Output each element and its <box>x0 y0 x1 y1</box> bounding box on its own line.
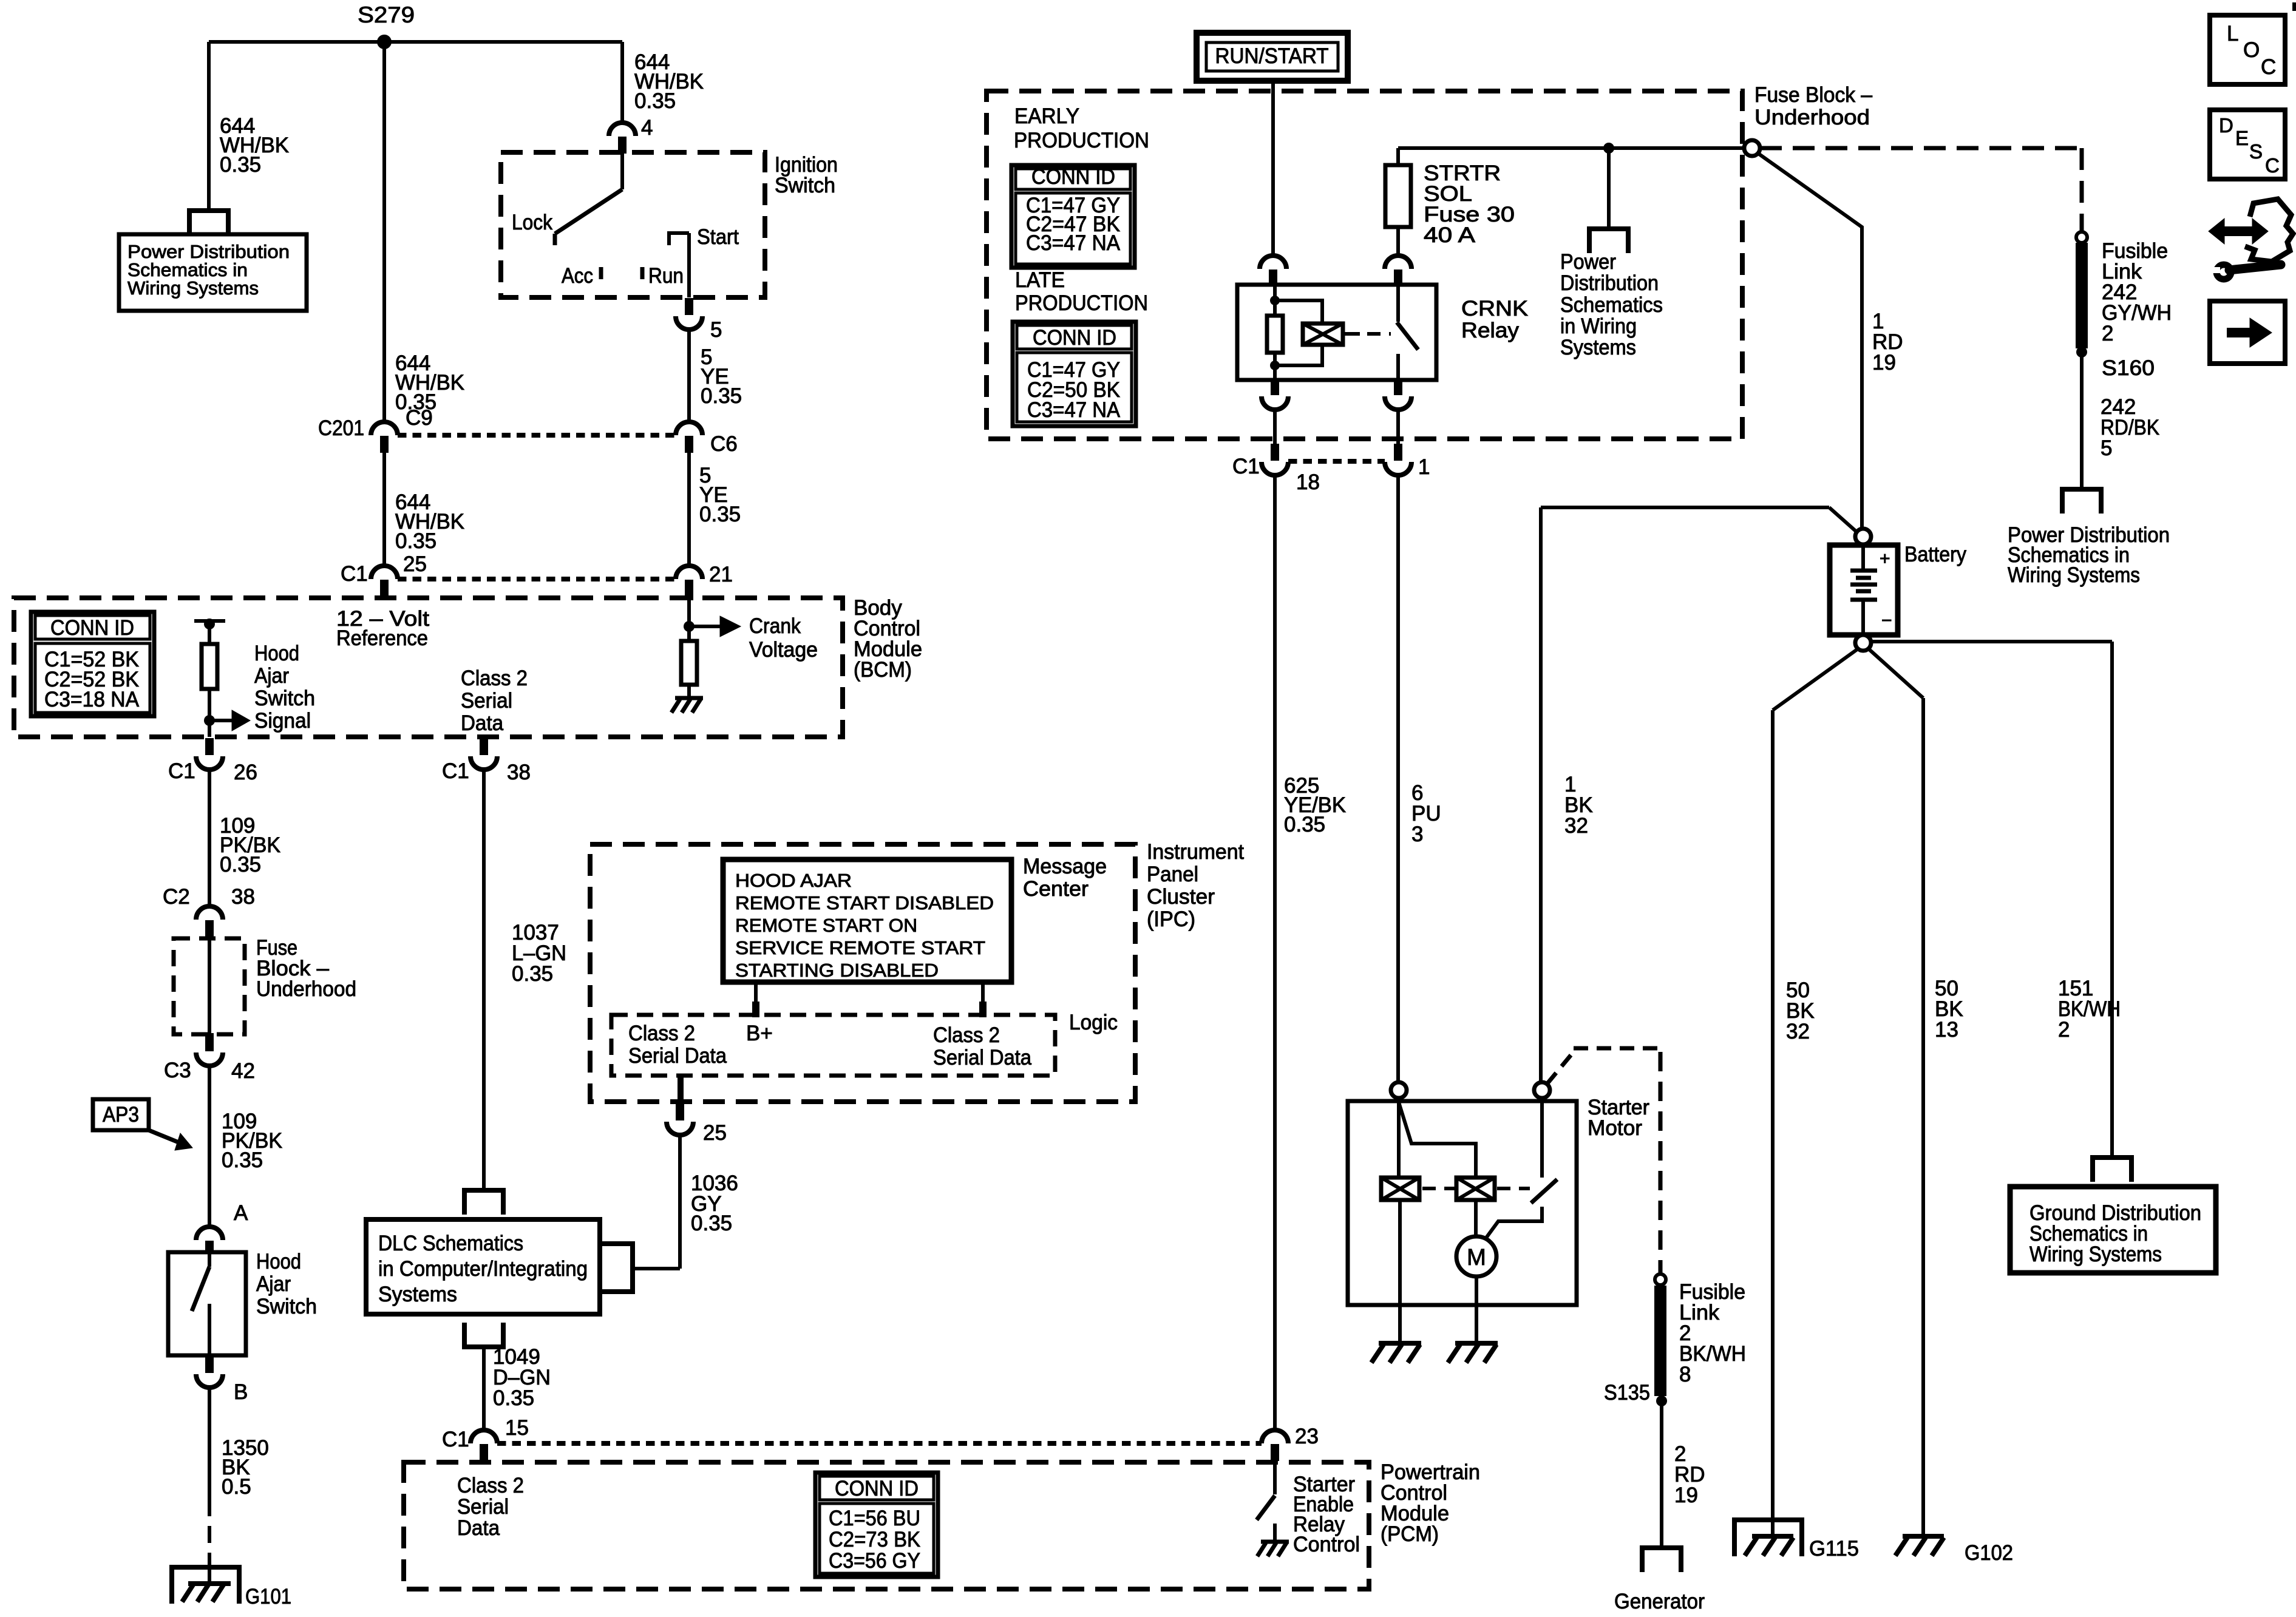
svg-text:Wiring Systems: Wiring Systems <box>2029 1242 2162 1266</box>
svg-text:M: M <box>1467 1245 1486 1270</box>
svg-text:26: 26 <box>234 761 257 784</box>
svg-text:Control: Control <box>1293 1533 1360 1556</box>
svg-text:S135: S135 <box>1604 1381 1650 1405</box>
svg-text:Ajar: Ajar <box>256 1272 291 1296</box>
svg-text:0.35: 0.35 <box>220 153 261 177</box>
svg-text:REMOTE START ON: REMOTE START ON <box>735 915 917 936</box>
svg-text:Hood: Hood <box>254 642 299 665</box>
svg-text:0.35: 0.35 <box>691 1212 732 1235</box>
svg-text:C1: C1 <box>341 562 368 586</box>
svg-text:O: O <box>2243 38 2260 62</box>
svg-text:STARTING DISABLED: STARTING DISABLED <box>735 960 939 981</box>
svg-text:Switch: Switch <box>254 686 315 710</box>
svg-text:25: 25 <box>403 552 427 576</box>
svg-text:RUN/START: RUN/START <box>1215 44 1329 68</box>
svg-text:CRNK: CRNK <box>1461 297 1528 320</box>
svg-text:C1: C1 <box>442 1428 469 1451</box>
svg-text:Crank: Crank <box>749 614 801 638</box>
svg-text:5: 5 <box>710 318 722 342</box>
svg-text:S: S <box>2249 140 2263 163</box>
svg-text:C3: C3 <box>164 1059 191 1082</box>
svg-text:B+: B+ <box>746 1022 773 1045</box>
svg-text:Underhood: Underhood <box>1754 106 1870 129</box>
svg-text:C3=18 NA: C3=18 NA <box>44 688 140 711</box>
svg-text:C9: C9 <box>406 406 433 430</box>
svg-text:Wiring Systems: Wiring Systems <box>2008 563 2140 587</box>
svg-text:L: L <box>2227 22 2238 46</box>
svg-text:REMOTE START DISABLED: REMOTE START DISABLED <box>735 892 994 914</box>
svg-text:25: 25 <box>703 1121 727 1145</box>
svg-text:in Computer/Integrating: in Computer/Integrating <box>378 1257 588 1281</box>
svg-text:0.35: 0.35 <box>1284 813 1325 836</box>
svg-text:0.35: 0.35 <box>395 529 436 553</box>
svg-text:Center: Center <box>1023 877 1089 901</box>
svg-text:Data: Data <box>457 1516 500 1540</box>
svg-text:B: B <box>234 1380 248 1404</box>
svg-text:Hood: Hood <box>256 1250 301 1273</box>
svg-text:2: 2 <box>2058 1018 2070 1042</box>
svg-text:Underhood: Underhood <box>256 977 356 1001</box>
svg-text:HOOD AJAR: HOOD AJAR <box>735 870 852 891</box>
svg-text:C2=73 BK: C2=73 BK <box>829 1528 920 1551</box>
svg-text:CONN ID: CONN ID <box>50 616 134 640</box>
svg-text:Generator: Generator <box>1614 1590 1705 1613</box>
svg-text:Class 2: Class 2 <box>933 1023 1000 1047</box>
svg-text:Serial Data: Serial Data <box>628 1044 727 1068</box>
svg-text:Run: Run <box>648 264 684 288</box>
svg-text:DLC Schematics: DLC Schematics <box>378 1232 523 1255</box>
svg-text:5: 5 <box>2101 436 2112 460</box>
svg-text:Relay: Relay <box>1461 319 1520 342</box>
svg-text:0.5: 0.5 <box>222 1475 251 1499</box>
svg-text:38: 38 <box>231 885 255 909</box>
svg-text:LATE: LATE <box>1015 268 1065 292</box>
svg-text:C2: C2 <box>163 885 190 909</box>
svg-text:S279: S279 <box>358 2 415 27</box>
svg-text:18: 18 <box>1296 470 1320 494</box>
svg-text:42: 42 <box>231 1059 255 1083</box>
svg-text:Class 2: Class 2 <box>628 1022 695 1045</box>
svg-text:40 A: 40 A <box>1424 223 1476 247</box>
svg-text:Reference: Reference <box>336 626 428 650</box>
svg-text:Fuse Block –: Fuse Block – <box>1754 83 1873 107</box>
svg-text:Panel: Panel <box>1147 863 1198 886</box>
svg-text:Acc: Acc <box>562 264 593 288</box>
svg-text:Serial Data: Serial Data <box>933 1046 1031 1070</box>
svg-text:C1: C1 <box>1232 455 1260 478</box>
svg-text:(BCM): (BCM) <box>854 658 912 682</box>
svg-text:C1: C1 <box>442 759 469 783</box>
svg-text:8: 8 <box>1679 1363 1691 1386</box>
svg-text:in Wiring: in Wiring <box>1560 314 1637 338</box>
svg-text:Serial: Serial <box>457 1495 509 1519</box>
svg-text:C3=47 NA: C3=47 NA <box>1026 231 1121 255</box>
svg-text:Cluster: Cluster <box>1147 885 1215 909</box>
svg-text:SERVICE REMOTE START: SERVICE REMOTE START <box>735 937 985 958</box>
svg-text:C1: C1 <box>168 759 195 783</box>
svg-text:CONN ID: CONN ID <box>1031 165 1115 189</box>
svg-text:Systems: Systems <box>378 1283 457 1306</box>
svg-text:13: 13 <box>1935 1018 1958 1042</box>
svg-text:Serial: Serial <box>461 689 512 713</box>
svg-text:Schematics: Schematics <box>1560 293 1663 317</box>
svg-text:0.35: 0.35 <box>634 89 676 113</box>
svg-text:CONN ID: CONN ID <box>835 1477 919 1500</box>
svg-text:Distribution: Distribution <box>1560 271 1659 295</box>
svg-text:19: 19 <box>1674 1483 1698 1507</box>
svg-text:4: 4 <box>641 116 653 140</box>
svg-text:Class 2: Class 2 <box>457 1474 524 1497</box>
svg-text:G115: G115 <box>1809 1537 1859 1561</box>
svg-text:C3=56 GY: C3=56 GY <box>829 1549 920 1573</box>
svg-text:C6: C6 <box>710 432 738 456</box>
svg-text:Instrument: Instrument <box>1147 840 1244 864</box>
svg-text:3: 3 <box>1411 822 1423 846</box>
svg-text:Switch: Switch <box>256 1295 317 1318</box>
svg-text:0.35: 0.35 <box>512 962 553 986</box>
svg-text:19: 19 <box>1872 351 1896 375</box>
svg-text:+: + <box>1880 549 1890 569</box>
svg-text:32: 32 <box>1786 1020 1810 1043</box>
svg-text:Data: Data <box>461 711 503 735</box>
svg-text:Motor: Motor <box>1588 1116 1642 1140</box>
svg-text:D: D <box>2219 114 2233 137</box>
svg-text:0.35: 0.35 <box>701 384 742 408</box>
svg-text:A: A <box>234 1201 248 1225</box>
svg-text:15: 15 <box>505 1416 529 1440</box>
svg-text:C: C <box>2261 55 2276 79</box>
svg-text:23: 23 <box>1295 1425 1319 1448</box>
svg-text:−: − <box>1881 611 1892 631</box>
svg-text:Battery: Battery <box>1904 543 1966 566</box>
svg-text:C201: C201 <box>318 416 364 440</box>
svg-text:(IPC): (IPC) <box>1147 907 1195 931</box>
svg-text:S160: S160 <box>2102 356 2155 380</box>
svg-text:PRODUCTION: PRODUCTION <box>1014 129 1149 152</box>
svg-text:Wiring Systems: Wiring Systems <box>127 277 259 299</box>
svg-text:2: 2 <box>2102 322 2113 345</box>
svg-text:Systems: Systems <box>1560 336 1636 359</box>
svg-text:32: 32 <box>1564 814 1588 838</box>
svg-text:C: C <box>2265 154 2280 177</box>
svg-text:Message: Message <box>1023 855 1107 878</box>
svg-text:Switch: Switch <box>775 174 835 197</box>
svg-text:E: E <box>2235 127 2249 149</box>
svg-text:(PCM): (PCM) <box>1381 1522 1439 1546</box>
svg-text:Lock: Lock <box>512 211 552 234</box>
svg-text:21: 21 <box>709 563 733 586</box>
svg-text:Voltage: Voltage <box>749 638 818 662</box>
svg-text:38: 38 <box>507 761 531 784</box>
svg-text:Power: Power <box>1560 250 1616 274</box>
svg-text:EARLY: EARLY <box>1014 104 1079 128</box>
svg-text:PRODUCTION: PRODUCTION <box>1015 291 1148 315</box>
svg-text:G101: G101 <box>245 1585 291 1609</box>
svg-text:0.35: 0.35 <box>699 503 741 526</box>
svg-text:Logic: Logic <box>1069 1011 1118 1034</box>
svg-text:G102: G102 <box>1965 1541 2013 1565</box>
svg-text:C1=56 BU: C1=56 BU <box>829 1507 920 1530</box>
svg-text:C3=47 NA: C3=47 NA <box>1027 398 1121 422</box>
svg-text:Start: Start <box>697 225 739 249</box>
svg-text:Ajar: Ajar <box>254 664 289 688</box>
svg-text:Class 2: Class 2 <box>461 666 528 690</box>
svg-text:AP3: AP3 <box>103 1103 139 1127</box>
svg-text:1: 1 <box>1418 455 1430 479</box>
svg-text:Signal: Signal <box>254 709 311 733</box>
svg-text:CONN ID: CONN ID <box>1033 326 1116 350</box>
svg-text:0.35: 0.35 <box>493 1386 534 1410</box>
svg-text:0.35: 0.35 <box>222 1148 263 1172</box>
svg-text:0.35: 0.35 <box>220 853 261 876</box>
